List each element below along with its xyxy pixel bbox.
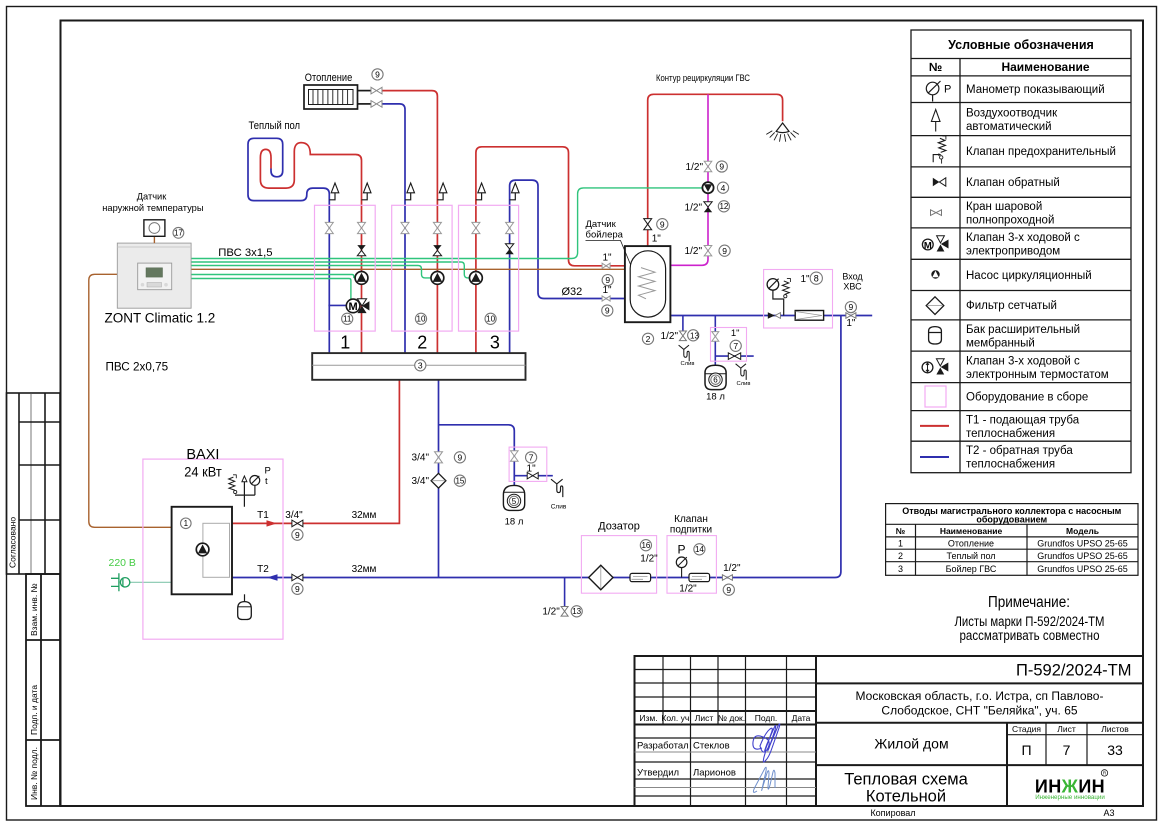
- svg-text:12: 12: [719, 202, 728, 211]
- drain funnel expansion: [551, 479, 563, 497]
- svg-text:А3: А3: [1103, 808, 1114, 818]
- svg-text:Примечание:: Примечание:: [988, 594, 1070, 611]
- legend table Условные обозначения: [911, 30, 1131, 473]
- svg-text:Насос циркуляционный: Насос циркуляционный: [966, 270, 1092, 282]
- svg-text:1": 1": [602, 252, 612, 263]
- svg-text:10: 10: [417, 315, 426, 324]
- wire membrane tank branch: [714, 316, 716, 366]
- DHW tank boiler: [625, 246, 671, 322]
- svg-text:9: 9: [295, 530, 300, 540]
- svg-text:9: 9: [722, 246, 727, 256]
- svg-text:Инв. № подл.: Инв. № подл.: [29, 747, 39, 800]
- mixing valve actuator M: [346, 299, 360, 313]
- left margin stamp table bottom: [26, 574, 60, 806]
- legend symbol: клапан 3-х ходовой с электронным термостатом: [922, 359, 948, 375]
- legend symbol: кран шаровой: [931, 210, 942, 216]
- svg-text:рассматривать совместно: рассматривать совместно: [960, 628, 1100, 643]
- wire outdoor sensor cable: [89, 274, 172, 527]
- svg-text:9: 9: [295, 584, 300, 594]
- svg-text:1": 1": [846, 318, 856, 329]
- svg-text:Тепловая схема: Тепловая схема: [844, 771, 968, 789]
- svg-text:наружной температуры: наружной температуры: [102, 203, 204, 213]
- radiator heating: [304, 72, 371, 109]
- collector outlets table: [886, 504, 1138, 576]
- svg-text:Жилой дом: Жилой дом: [874, 736, 948, 752]
- svg-text:Котельной: Котельной: [866, 788, 946, 806]
- air vent 4: [437, 193, 443, 200]
- node label 9 make-up: [723, 584, 734, 595]
- svg-text:1/2": 1/2": [640, 554, 658, 565]
- svg-text:Grundfos UPSO 25-65: Grundfos UPSO 25-65: [1037, 551, 1128, 561]
- node label 3 collector: [415, 360, 426, 371]
- air vent 2: [362, 193, 368, 200]
- boiler BAXI unit: [172, 507, 232, 595]
- svg-text:М: М: [924, 240, 932, 251]
- svg-text:Оборудование в сборе: Оборудование в сборе: [966, 392, 1088, 404]
- svg-text:Стадия: Стадия: [1012, 724, 1041, 734]
- wire control cable to mixing valve: [191, 279, 351, 300]
- note Примечание: [955, 594, 1105, 643]
- svg-text:бойлера: бойлера: [586, 230, 624, 241]
- safety group stem: [235, 482, 255, 507]
- svg-text:4: 4: [721, 183, 726, 193]
- svg-text:7: 7: [733, 341, 738, 351]
- expansion tank 5: [503, 485, 524, 510]
- valve column 4: [433, 222, 441, 233]
- valve make-up drain 13: [561, 607, 568, 617]
- valve DHW return: [602, 296, 610, 301]
- svg-text:1": 1": [652, 234, 662, 245]
- inlet assembly box 8: [764, 270, 833, 329]
- svg-text:9: 9: [719, 162, 724, 172]
- wire recirculation return magenta: [670, 94, 708, 265]
- svg-text:1: 1: [184, 519, 189, 528]
- wire make-up drain branch 13: [564, 578, 566, 607]
- make-up valve box: [667, 536, 716, 594]
- node label 9 collector return: [454, 452, 465, 463]
- left margin stamp table top (Согласовано): [7, 393, 61, 574]
- node label 13 make-up: [571, 606, 582, 617]
- svg-text:14: 14: [695, 545, 704, 554]
- svg-text:Листов: Листов: [1101, 724, 1129, 734]
- svg-text:Подп.: Подп.: [755, 713, 778, 723]
- check valve inlet: [768, 312, 775, 318]
- filter strainer collector return: [431, 473, 446, 488]
- svg-text:М: М: [349, 301, 358, 313]
- svg-text:Утвердил: Утвердил: [637, 768, 679, 779]
- pump group 3: [470, 272, 483, 285]
- legend symbol: насос: [931, 270, 939, 278]
- wire membrane tank drain stub: [715, 355, 753, 357]
- svg-text:Фильтр сетчатый: Фильтр сетчатый: [966, 300, 1057, 312]
- legend symbol: клапан обратный: [933, 178, 946, 186]
- svg-text:Дата: Дата: [792, 713, 811, 723]
- node label 9 T1 valve: [292, 529, 303, 540]
- svg-text:15: 15: [455, 477, 464, 486]
- svg-text:17: 17: [174, 229, 183, 238]
- svg-text:7: 7: [1063, 742, 1071, 758]
- svg-text:оборудованием: оборудованием: [976, 515, 1047, 525]
- svg-text:Условные обозначения: Условные обозначения: [948, 38, 1094, 52]
- drain funnel membrane: [736, 364, 747, 380]
- svg-text:Т1: Т1: [257, 510, 269, 521]
- svg-text:Разработал: Разработал: [637, 741, 689, 752]
- manometer inlet: [767, 279, 779, 291]
- legend symbol: воздухоотводчик: [931, 110, 940, 132]
- pump group 2 assembly box: [392, 205, 452, 331]
- valve make-up 9: [722, 575, 732, 581]
- manometer inlet stem: [773, 290, 784, 315]
- legend symbol: бак расширительный: [929, 327, 942, 344]
- svg-text:1/2": 1/2": [661, 331, 679, 342]
- svg-text:Клапан 3-х ходовой с: Клапан 3-х ходовой с: [966, 232, 1080, 244]
- pump group 1: [355, 272, 368, 285]
- svg-text:электроприводом: электроприводом: [966, 246, 1060, 258]
- svg-text:8: 8: [814, 273, 819, 283]
- valve inlet main: [846, 313, 856, 319]
- wire sensor cable to DHW tank: [191, 268, 643, 270]
- logo ИНЖИН: [1035, 770, 1108, 802]
- air vent 6: [510, 193, 516, 200]
- svg-text:1/2": 1/2": [723, 563, 741, 574]
- svg-text:Grundfos UPSO 25-65: Grundfos UPSO 25-65: [1037, 564, 1128, 574]
- membrane tank assembly box: [711, 328, 747, 362]
- node label 9 inlet: [845, 302, 856, 313]
- legend symbol: клапан предохранительный: [933, 136, 946, 164]
- svg-text:Лист: Лист: [695, 713, 714, 723]
- svg-text:Согласовано: Согласовано: [8, 517, 18, 568]
- svg-text:№: №: [896, 526, 906, 536]
- valve T1: [292, 520, 303, 527]
- svg-text:16: 16: [641, 541, 650, 550]
- check valve recirc 12: [704, 202, 712, 207]
- wire T1 pipe radiator supply: [382, 91, 437, 354]
- svg-text:Контур рециркуляции ГВС: Контур рециркуляции ГВС: [656, 73, 750, 83]
- air vent 3: [405, 193, 411, 200]
- svg-text:9: 9: [726, 585, 731, 595]
- svg-text:BAXI: BAXI: [186, 447, 219, 463]
- svg-text:теплоснабжения: теплоснабжения: [966, 428, 1055, 440]
- svg-text:1/2": 1/2": [685, 246, 703, 257]
- svg-text:Стеклов: Стеклов: [693, 741, 730, 752]
- svg-text:Лист: Лист: [1057, 724, 1076, 734]
- svg-text:9: 9: [605, 275, 610, 285]
- outdoor temperature sensor: [153, 236, 155, 243]
- valve DHW supply: [602, 263, 610, 268]
- dosing cartridge: [630, 573, 651, 581]
- svg-text:3: 3: [898, 564, 903, 574]
- controller ZONT: [117, 243, 191, 308]
- svg-text:Ø32: Ø32: [562, 286, 583, 298]
- svg-text:1": 1": [800, 274, 810, 285]
- filter softener inlet: [795, 311, 823, 321]
- node label 8 inlet: [810, 272, 822, 284]
- svg-text:мембранный: мембранный: [966, 338, 1035, 350]
- svg-text:Р: Р: [944, 84, 951, 96]
- valve column 3: [401, 222, 409, 233]
- mixing valve 3-way: [357, 299, 366, 306]
- legend symbol: манометр: [926, 81, 940, 102]
- svg-text:1/2": 1/2": [542, 607, 560, 618]
- svg-text:Изм.: Изм.: [639, 713, 657, 723]
- legend symbol: фильтр сетчатый: [926, 297, 944, 315]
- svg-text:Отопление: Отопление: [948, 539, 994, 549]
- drain funnel cold: [679, 345, 690, 361]
- wire floor heating return coil: [248, 138, 329, 353]
- svg-text:Слив: Слив: [681, 361, 695, 367]
- valve membrane drain: [728, 353, 740, 360]
- valve radiator return: [371, 101, 382, 108]
- valve T2: [292, 574, 303, 581]
- node label 15 filter: [454, 475, 465, 486]
- svg-text:Р: Р: [678, 543, 686, 557]
- svg-text:Теплый пол: Теплый пол: [946, 551, 995, 561]
- wire T2 pipe radiator return: [382, 104, 405, 353]
- svg-text:32мм: 32мм: [352, 564, 377, 575]
- signature 2: [753, 767, 775, 792]
- svg-text:P: P: [265, 466, 271, 477]
- svg-text:18 л: 18 л: [706, 392, 725, 403]
- wire floor heating supply coil: [260, 143, 361, 354]
- arrow T1: [267, 520, 278, 526]
- node label 16 dosing: [640, 540, 651, 551]
- signature 1: [753, 724, 780, 762]
- wire boiler T2 stub into tank: [625, 298, 641, 300]
- valve column 2: [358, 222, 366, 233]
- svg-text:1/2": 1/2": [686, 162, 704, 173]
- wire cold water main: [670, 315, 872, 317]
- svg-text:Манометр показывающий: Манометр показывающий: [966, 84, 1105, 96]
- air vent 5: [476, 193, 482, 200]
- shower head: [766, 123, 799, 142]
- pump group 2: [431, 272, 444, 285]
- svg-text:П-592/2024-ТМ: П-592/2024-ТМ: [1016, 662, 1132, 680]
- valve column 5: [472, 222, 480, 233]
- svg-text:Кран шаровой: Кран шаровой: [966, 201, 1042, 213]
- valve drain 13 cold: [679, 331, 686, 341]
- check valve group 2: [433, 245, 441, 250]
- air vent 1: [329, 193, 335, 200]
- svg-text:Листы марки П-592/2024-ТМ: Листы марки П-592/2024-ТМ: [955, 614, 1105, 629]
- svg-text:Датчик: Датчик: [137, 192, 168, 202]
- pump group 3 assembly box: [459, 205, 519, 331]
- svg-text:Клапан: Клапан: [674, 514, 708, 525]
- node label 6 tank: [709, 373, 722, 386]
- valve recirc top: [704, 161, 712, 171]
- svg-text:Наименование: Наименование: [940, 526, 1003, 536]
- svg-text:полнопроходной: полнопроходной: [966, 215, 1054, 227]
- svg-text:Датчик: Датчик: [586, 219, 617, 230]
- legend symbol: клапан 3-х ходовой с электроприводом: [922, 236, 948, 252]
- node label 9 hot out: [657, 219, 668, 230]
- make-up reducer cartridge: [689, 573, 710, 581]
- node label 7 valve: [526, 452, 537, 463]
- valve column 1: [325, 222, 333, 233]
- svg-text:ПВС 2х0,75: ПВС 2х0,75: [106, 361, 169, 374]
- node label 9 T2 valve: [292, 583, 303, 594]
- expansion tank boiler: [244, 594, 246, 601]
- valve collector return: [435, 452, 443, 463]
- node label 10 group 2: [415, 313, 426, 324]
- pump group 1 assembly box: [315, 205, 376, 331]
- svg-text:Взам. инв. №: Взам. инв. №: [29, 583, 39, 636]
- valve assembly box 7 near boiler: [509, 447, 547, 481]
- wire DHW tank return to group 3: [510, 180, 641, 353]
- wire expansion tank branch: [439, 425, 515, 486]
- valve expansion tank: [511, 451, 519, 461]
- svg-text:Воздухоотводчик: Воздухоотводчик: [966, 108, 1058, 120]
- svg-text:9: 9: [849, 302, 854, 312]
- arrow T2: [267, 574, 278, 580]
- svg-text:Grundfos UPSO 25-65: Grundfos UPSO 25-65: [1037, 539, 1128, 549]
- plug 220V: [111, 573, 130, 591]
- wire expansion tank drain stub: [514, 475, 553, 477]
- svg-text:2: 2: [898, 551, 903, 561]
- svg-text:ХВС: ХВС: [843, 282, 862, 292]
- svg-text:Копировал: Копировал: [870, 808, 915, 818]
- svg-text:Клапан предохранительный: Клапан предохранительный: [966, 146, 1116, 158]
- svg-text:ПВС 3х1,5: ПВС 3х1,5: [218, 247, 272, 259]
- svg-text:1/2": 1/2": [679, 584, 697, 595]
- node label 9 DHW return: [602, 305, 613, 316]
- svg-text:13: 13: [572, 607, 581, 616]
- svg-text:3/4": 3/4": [412, 476, 430, 487]
- wire boiler T1 stub into tank: [625, 265, 641, 267]
- node label 9 recirc bottom: [719, 245, 730, 256]
- pump boiler internal: [196, 543, 209, 556]
- manometer make-up: [681, 568, 683, 578]
- coil zigzag DHW: [639, 268, 656, 299]
- wire drain branch 13: [682, 316, 684, 331]
- svg-text:t: t: [265, 476, 268, 487]
- wire DHW hot water riser and recirculation loop: [648, 94, 783, 246]
- valve recirc bottom: [704, 246, 712, 256]
- svg-text:32мм: 32мм: [352, 510, 377, 521]
- svg-text:9: 9: [375, 70, 380, 80]
- check valve group 1: [357, 245, 365, 250]
- svg-text:18 л: 18 л: [505, 517, 524, 528]
- valve membrane branch: [712, 332, 719, 342]
- svg-text:6: 6: [713, 376, 718, 385]
- svg-text:1": 1": [602, 285, 612, 296]
- node label 17 sensor: [173, 227, 184, 238]
- svg-text:№ док.: № док.: [718, 713, 745, 723]
- svg-text:9: 9: [660, 219, 665, 229]
- node label 5 tank: [507, 494, 520, 507]
- svg-text:Инженерные инновации: Инженерные инновации: [1035, 794, 1105, 801]
- svg-text:Слив: Слив: [737, 381, 751, 387]
- svg-text:Бойлер ГВС: Бойлер ГВС: [946, 564, 997, 574]
- svg-text:теплоснабжения: теплоснабжения: [966, 459, 1055, 471]
- svg-text:3: 3: [418, 360, 423, 370]
- svg-text:Кол. уч.: Кол. уч.: [661, 713, 691, 723]
- node label 9 recirc top: [716, 161, 727, 172]
- check valve group 3: [505, 244, 513, 249]
- wire 220V supply: [130, 581, 172, 583]
- wire control cable to DHW pump: [191, 188, 702, 259]
- svg-text:33: 33: [1107, 742, 1123, 758]
- svg-text:24 кВт: 24 кВт: [184, 464, 222, 480]
- node label 12 check: [718, 201, 729, 212]
- node label 14 make-up: [694, 544, 705, 555]
- safety valve inlet: [782, 278, 790, 297]
- svg-text:10: 10: [486, 315, 495, 324]
- node label 10 group 3: [485, 313, 496, 324]
- svg-text:Московская область, г.о. Истра: Московская область, г.о. Истра, сп Павло…: [856, 689, 1104, 703]
- node label 4 pump: [717, 182, 728, 193]
- svg-text:13: 13: [690, 332, 699, 341]
- svg-text:220 В: 220 В: [109, 557, 136, 569]
- legend symbol: Т1 line: [920, 425, 949, 427]
- svg-text:Т2 - обратная труба: Т2 - обратная труба: [966, 445, 1073, 457]
- svg-text:3: 3: [490, 333, 500, 353]
- valve drain horizontal: [527, 473, 538, 479]
- svg-text:Бак расширительный: Бак расширительный: [966, 324, 1080, 336]
- svg-text:электронным термостатом: электронным термостатом: [966, 369, 1109, 381]
- collector: [312, 353, 525, 380]
- svg-text:1": 1": [731, 328, 740, 339]
- svg-text:Слив: Слив: [551, 504, 567, 511]
- node label 7 membrane: [730, 340, 741, 351]
- air vent boiler: [242, 476, 247, 482]
- svg-text:Наименование: Наименование: [1001, 60, 1089, 74]
- svg-text:Клапан обратный: Клапан обратный: [966, 177, 1060, 189]
- node label 2 DHW tank: [642, 333, 653, 344]
- pump recirculation 4: [702, 182, 713, 193]
- filter strainer dosing: [589, 565, 613, 589]
- svg-text:3/4": 3/4": [412, 453, 430, 464]
- svg-text:Клапан 3-х ходовой с: Клапан 3-х ходовой с: [966, 356, 1080, 368]
- legend symbol: Т2 line: [920, 456, 949, 458]
- valve DHW hot out: [644, 219, 652, 230]
- svg-text:Теплый пол: Теплый пол: [249, 120, 301, 132]
- svg-text:1/2": 1/2": [685, 203, 703, 214]
- wire control cable to pump 3: [191, 262, 470, 278]
- svg-text:Отопление: Отопление: [305, 72, 353, 84]
- wire control cable to pump 1: [191, 275, 356, 279]
- svg-text:2: 2: [646, 334, 651, 344]
- membrane tank 6: [705, 365, 726, 389]
- svg-text:Ларионов: Ларионов: [693, 768, 736, 779]
- svg-text:Вход: Вход: [842, 272, 863, 282]
- node label 13 drain: [688, 330, 699, 341]
- node label 9 DHW supply: [602, 275, 613, 286]
- svg-text:подпитки: подпитки: [670, 525, 712, 536]
- wire mixing valve blue stub: [328, 304, 346, 306]
- svg-text:5: 5: [512, 497, 517, 506]
- svg-text:1: 1: [340, 333, 350, 353]
- safety valve boiler: [229, 475, 237, 494]
- wire DHW tank supply from group 3: [476, 147, 641, 353]
- svg-text:автоматический: автоматический: [966, 121, 1052, 133]
- svg-text:П: П: [1021, 742, 1031, 758]
- title block: [635, 656, 1144, 806]
- dosing unit box: [581, 536, 656, 594]
- svg-text:Модель: Модель: [1066, 526, 1099, 536]
- wire control cable to pump 2: [191, 266, 432, 278]
- svg-text:11: 11: [343, 315, 352, 324]
- svg-text:2: 2: [417, 333, 427, 353]
- boiler assembly box: [143, 459, 283, 639]
- svg-text:1: 1: [898, 539, 903, 549]
- legend symbol: оборудование в сборе: [925, 386, 946, 407]
- svg-text:9: 9: [458, 452, 463, 462]
- svg-text:Слободское, СНТ "Беляйка", уч.: Слободское, СНТ "Беляйка", уч. 65: [881, 704, 1077, 718]
- svg-text:7: 7: [529, 453, 534, 463]
- valve radiator supply: [371, 87, 382, 94]
- node label 11 group 1: [342, 313, 353, 324]
- valve column 6: [506, 222, 514, 233]
